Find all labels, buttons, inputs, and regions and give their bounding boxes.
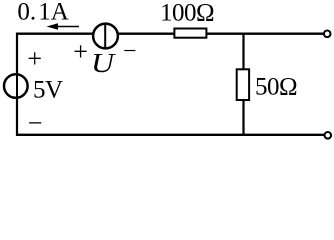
svg-text:5V: 5V (33, 76, 63, 103)
svg-text:−: − (28, 109, 43, 138)
svg-text:+: + (27, 44, 42, 73)
svg-text:1A: 1A (38, 0, 69, 26)
svg-text:U: U (91, 48, 116, 78)
svg-text:+: + (73, 37, 88, 66)
svg-text:100Ω: 100Ω (160, 0, 214, 26)
svg-text:−: − (123, 39, 137, 65)
svg-text:50Ω: 50Ω (255, 73, 297, 100)
svg-text:0.: 0. (17, 0, 36, 26)
